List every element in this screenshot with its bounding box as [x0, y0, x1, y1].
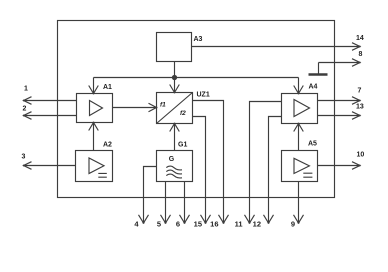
wire A5 to A4 [294, 124, 304, 151]
svg-text:UZ1: UZ1 [197, 92, 210, 99]
wire junction to UZ1 [170, 78, 180, 93]
pin 15 [193, 117, 211, 224]
pin 8 [319, 59, 361, 67]
mixer UZ1 [157, 93, 193, 124]
pin 9 [294, 182, 304, 224]
svg-text:11: 11 [235, 220, 243, 229]
amplifier A5 [282, 151, 318, 182]
svg-text:7: 7 [358, 88, 362, 95]
wire G1 to UZ1 [170, 124, 180, 151]
svg-text:G1: G1 [178, 142, 187, 149]
svg-text:5: 5 [157, 220, 161, 229]
block A3 [157, 33, 192, 62]
svg-text:G: G [169, 156, 175, 163]
svg-text:6: 6 [176, 220, 180, 229]
svg-text:16: 16 [210, 220, 218, 229]
svg-text:A4: A4 [309, 84, 318, 91]
pin 2 [24, 112, 77, 120]
pin 10 [318, 162, 361, 170]
wire bus from A1 to A4 feed [94, 77, 299, 79]
wire A3 to junction [174, 62, 176, 78]
svg-text:10: 10 [357, 152, 365, 159]
pin 11 [245, 102, 282, 224]
svg-text:1: 1 [24, 86, 28, 93]
wire bus to A1 top [89, 78, 99, 94]
pin 5 [161, 182, 171, 224]
svg-text:4: 4 [134, 220, 139, 229]
pin 7 [318, 97, 361, 105]
amplifier A4 [282, 94, 318, 124]
svg-text:A2: A2 [103, 142, 112, 149]
svg-text:13: 13 [356, 104, 364, 111]
svg-text:9: 9 [291, 220, 295, 229]
svg-text:8: 8 [359, 51, 363, 58]
svg-text:A5: A5 [308, 141, 317, 148]
wire bus to A4 top [294, 78, 304, 94]
IC outline box [58, 21, 335, 198]
svg-text:A3: A3 [194, 36, 203, 43]
svg-text:A1: A1 [103, 84, 112, 91]
amplifier A1 [77, 94, 113, 123]
pin 1 [24, 97, 77, 105]
pin 12 [264, 117, 282, 224]
svg-text:2: 2 [23, 106, 27, 113]
generator G1 [157, 151, 193, 182]
wire A2 to A1 [89, 123, 99, 151]
ground [318, 63, 320, 74]
amplifier A2 [76, 151, 113, 182]
pin 4 [139, 167, 157, 224]
pin 13 [318, 112, 361, 120]
svg-text:f1: f1 [160, 102, 166, 109]
pin 3 [24, 162, 76, 170]
svg-text:15: 15 [194, 220, 202, 229]
svg-text:3: 3 [22, 154, 26, 161]
junction dot [172, 75, 176, 79]
svg-text:14: 14 [356, 35, 364, 42]
svg-text:f2: f2 [180, 110, 186, 117]
svg-text:12: 12 [253, 220, 261, 229]
pin 6 [180, 182, 190, 224]
wire A1 output to UZ1 [113, 103, 157, 111]
pin 14 [192, 43, 361, 51]
pin 16 [193, 101, 229, 224]
